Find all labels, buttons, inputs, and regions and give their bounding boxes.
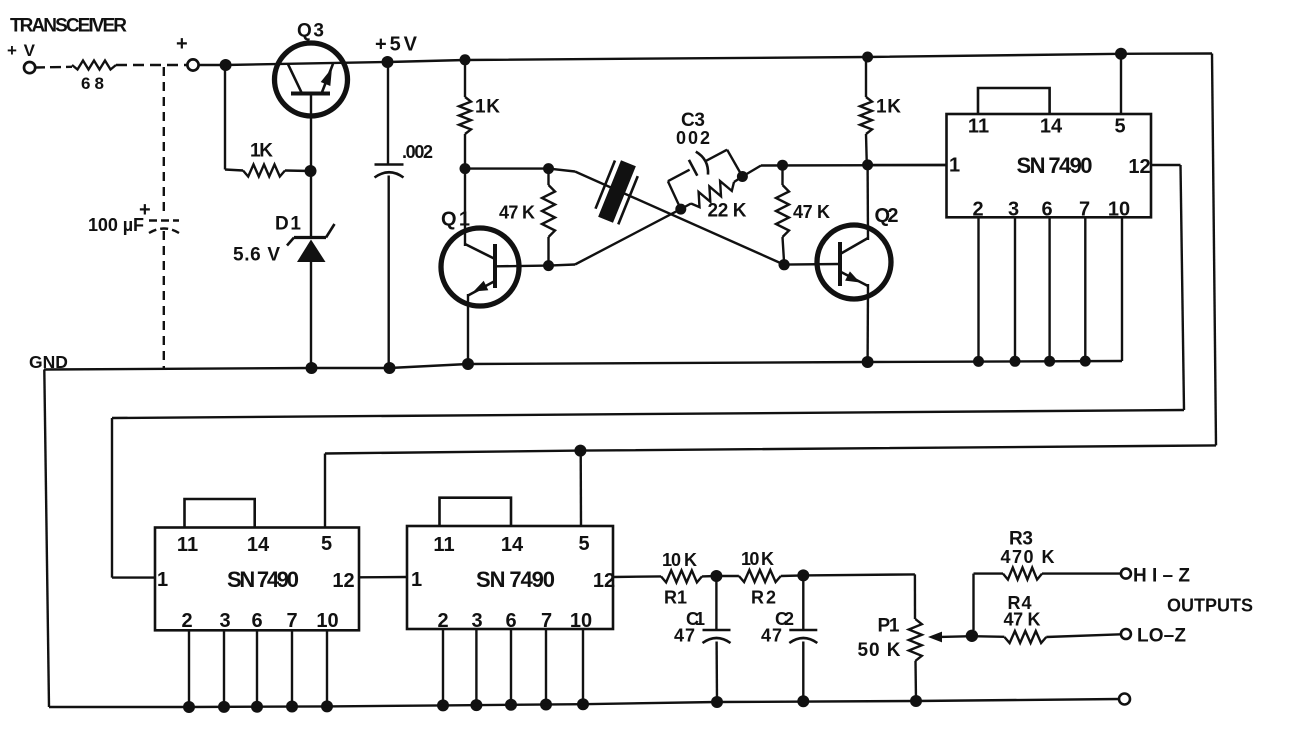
svg-text:LO–Z: LO–Z	[1137, 626, 1186, 647]
svg-text:Q3: Q3	[297, 21, 324, 42]
svg-text:5: 5	[578, 533, 589, 555]
svg-text:14: 14	[1040, 116, 1063, 138]
svg-text:5: 5	[1114, 116, 1125, 138]
svg-text:2: 2	[437, 610, 448, 632]
svg-text:R1: R1	[664, 588, 687, 608]
svg-text:1: 1	[157, 569, 168, 591]
svg-text:HI–Z: HI–Z	[1133, 566, 1190, 587]
svg-text:11: 11	[177, 534, 198, 556]
svg-text:1K: 1K	[475, 97, 500, 118]
svg-text:P1: P1	[878, 616, 900, 637]
svg-text:470 K: 470 K	[1001, 547, 1055, 567]
svg-text:10: 10	[316, 610, 338, 632]
svg-text:2: 2	[181, 610, 192, 632]
svg-text:+ 5 V: + 5 V	[375, 34, 418, 56]
svg-text:002: 002	[676, 128, 710, 148]
svg-text:47: 47	[761, 626, 782, 646]
svg-text:3: 3	[1008, 199, 1019, 221]
svg-text:5.6 V: 5.6 V	[233, 245, 280, 266]
svg-text:5: 5	[321, 533, 332, 555]
svg-text:Q2: Q2	[875, 205, 899, 227]
svg-text:100 µF: 100 µF	[88, 215, 144, 235]
svg-text:1K: 1K	[250, 141, 273, 162]
svg-text:Q1: Q1	[441, 209, 470, 231]
svg-text:6: 6	[505, 610, 516, 632]
svg-text:11: 11	[968, 116, 989, 138]
svg-text:OUTPUTS: OUTPUTS	[1167, 596, 1253, 616]
svg-text:12: 12	[1128, 156, 1150, 178]
svg-text:SN 7490: SN 7490	[227, 567, 299, 592]
svg-text:6: 6	[251, 610, 262, 632]
svg-text:6: 6	[1041, 199, 1052, 221]
svg-text:3: 3	[471, 610, 482, 632]
svg-text:10: 10	[1108, 199, 1130, 221]
svg-text:R2: R2	[751, 588, 776, 608]
svg-text:1K: 1K	[876, 97, 901, 118]
svg-text:47 K: 47 K	[793, 202, 830, 222]
svg-text:2: 2	[972, 199, 983, 221]
svg-text:D1: D1	[275, 214, 301, 235]
svg-text:7: 7	[1079, 199, 1090, 221]
svg-text:14: 14	[247, 534, 270, 556]
svg-text:.002: .002	[402, 142, 433, 162]
svg-text:14: 14	[501, 534, 524, 556]
svg-text:50 K: 50 K	[858, 640, 901, 661]
svg-text:1: 1	[411, 569, 422, 591]
svg-text:7: 7	[286, 610, 297, 632]
svg-text:10 K: 10 K	[662, 550, 697, 570]
svg-text:47: 47	[674, 626, 695, 646]
svg-text:SN 7490: SN 7490	[1017, 153, 1093, 178]
svg-text:7: 7	[541, 610, 552, 632]
svg-text:12: 12	[593, 570, 615, 592]
svg-text:+ V: + V	[7, 41, 36, 60]
svg-text:SN 7490: SN 7490	[476, 567, 555, 592]
svg-text:12: 12	[332, 570, 354, 592]
svg-text:22 K: 22 K	[708, 201, 747, 222]
svg-text:TRANSCEIVER: TRANSCEIVER	[10, 16, 127, 37]
svg-text:47 K: 47 K	[1004, 610, 1041, 630]
svg-text:+: +	[176, 33, 188, 55]
svg-text:11: 11	[433, 534, 454, 556]
svg-text:10 K: 10 K	[741, 549, 774, 569]
svg-text:47 K: 47 K	[499, 203, 535, 223]
svg-text:1: 1	[949, 155, 960, 177]
svg-text:3: 3	[219, 610, 230, 632]
svg-text:10: 10	[570, 610, 592, 632]
svg-text:GND: GND	[29, 352, 68, 372]
